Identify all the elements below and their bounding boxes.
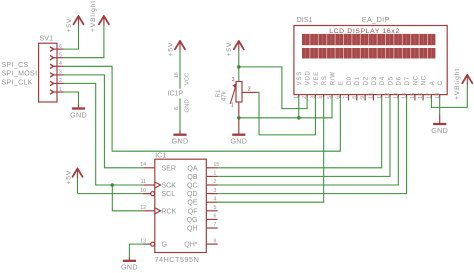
LCD pins 1-18 with names <box>294 70 444 100</box>
svg-text:VSS: VSS <box>297 71 303 85</box>
svg-text:R/W: R/W <box>330 71 336 85</box>
svg-text:1: 1 <box>59 87 62 93</box>
svg-text:QC: QC <box>187 183 198 190</box>
svg-text:6: 6 <box>59 44 62 50</box>
svg-text:3: 3 <box>311 96 317 99</box>
wire QB to LCD D5 <box>218 97 390 176</box>
ground (SV1) <box>70 105 87 120</box>
junction R1 bottom / GND rail <box>237 116 241 120</box>
svg-text:LCD DISPLAY 16x2: LCD DISPLAY 16x2 <box>329 28 400 35</box>
svg-text:D1: D1 <box>355 76 361 85</box>
wire QD to LCD D7 <box>218 97 407 193</box>
svg-text:SER: SER <box>162 165 176 172</box>
svg-text:8: 8 <box>352 96 358 99</box>
svg-text:SCK: SCK <box>162 183 177 190</box>
svg-text:+5V: +5V <box>168 42 175 57</box>
svg-text:GND: GND <box>121 263 138 272</box>
svg-text:6: 6 <box>335 96 341 99</box>
wire QE to LCD RS <box>218 97 324 202</box>
wire SPI_CS net to LCD E <box>64 66 341 151</box>
wire SV1 pin1 to ground <box>64 92 79 105</box>
wire G to ground <box>129 244 148 258</box>
svg-text:QD: QD <box>187 191 198 198</box>
svg-text:2: 2 <box>302 96 308 99</box>
wire SV1 pin6 to +5V <box>64 38 79 50</box>
svg-text:9: 9 <box>360 96 366 99</box>
svg-text:3: 3 <box>232 77 235 83</box>
svg-text:+5V: +5V <box>66 18 73 33</box>
svg-text:15: 15 <box>214 162 220 168</box>
svg-text:7: 7 <box>214 222 217 228</box>
power symbol IC1P <box>168 72 191 113</box>
supply +VBlight (backlight) <box>454 68 473 100</box>
supply +5V (R1) <box>226 41 244 67</box>
ground (R1) <box>230 118 247 146</box>
ground (IC1P) <box>172 130 189 146</box>
svg-text:16: 16 <box>418 92 424 98</box>
svg-text:13: 13 <box>140 238 146 244</box>
svg-text:2: 2 <box>214 179 217 185</box>
svg-text:QE: QE <box>187 200 197 207</box>
wire branch to RCK <box>112 185 143 211</box>
svg-text:74HCT595N: 74HCT595N <box>155 255 200 264</box>
svg-text:SPI_MOSI: SPI_MOSI <box>2 71 38 78</box>
svg-text:+5V: +5V <box>66 170 73 185</box>
svg-text:2: 2 <box>248 87 251 93</box>
supply +VBlight (SV1) <box>90 0 109 38</box>
supply +5V (IC1P VCC) <box>168 41 186 74</box>
net label SPI_CLK <box>2 79 33 86</box>
junction VSS / GND rail <box>297 116 301 120</box>
wire ground rail to LCD R/W <box>239 97 332 117</box>
svg-text:D0: D0 <box>347 76 353 85</box>
junction SCK/RCK <box>111 183 115 187</box>
svg-text:D3: D3 <box>372 76 378 85</box>
wire R1 top <box>238 67 240 82</box>
svg-text:G: G <box>162 242 167 249</box>
svg-text:VEE: VEE <box>314 71 320 85</box>
svg-text:5: 5 <box>214 205 217 211</box>
wire SPI_MOSI net to SER <box>64 75 144 168</box>
svg-text:VCC: VCC <box>185 72 191 85</box>
svg-text:RS: RS <box>322 75 328 85</box>
svg-text:GND: GND <box>230 137 247 146</box>
wire SPI_CLK net to SCK <box>64 83 144 185</box>
wire +5V to LCD VDD <box>239 67 307 109</box>
wire QA to LCD D4 <box>218 97 382 167</box>
svg-text:16: 16 <box>174 72 180 78</box>
svg-text:1: 1 <box>231 102 234 108</box>
svg-text:5: 5 <box>59 53 62 59</box>
svg-text:DIS1: DIS1 <box>297 15 313 24</box>
svg-text:5: 5 <box>327 96 333 99</box>
svg-text:IC1P: IC1P <box>168 90 184 97</box>
svg-text:A: A <box>430 81 436 86</box>
svg-text:QG: QG <box>187 217 198 224</box>
LCD module DIS1 EA_DIP <box>294 15 447 95</box>
svg-text:EA_DIP: EA_DIP <box>362 15 390 24</box>
svg-text:VDD: VDD <box>306 70 312 85</box>
svg-text:7: 7 <box>344 96 350 99</box>
wire LCD C down <box>439 97 441 115</box>
junction R1 top / VDD branch <box>237 65 241 69</box>
ground (LCD C) <box>431 115 448 135</box>
svg-text:14: 14 <box>140 162 146 168</box>
svg-text:3: 3 <box>214 188 217 194</box>
connector SV1 <box>39 33 64 102</box>
svg-text:IC1: IC1 <box>155 152 166 159</box>
svg-text:QH: QH <box>187 226 198 233</box>
svg-text:15: 15 <box>410 92 416 98</box>
svg-text:QF: QF <box>188 208 198 215</box>
ground (IC1 G) <box>121 258 138 272</box>
svg-text:4: 4 <box>59 61 62 67</box>
svg-text:10: 10 <box>140 188 146 194</box>
svg-text:RCK: RCK <box>162 208 177 215</box>
svg-text:QA: QA <box>187 165 197 172</box>
wire LCD A to +VBlight <box>431 85 467 107</box>
svg-text:8: 8 <box>174 107 180 110</box>
svg-text:SPI_CS: SPI_CS <box>2 62 29 69</box>
svg-text:E: E <box>339 81 345 86</box>
svg-text:GND: GND <box>70 110 87 119</box>
supply +5V (SCL) <box>66 169 83 194</box>
svg-text:6: 6 <box>214 214 217 220</box>
svg-text:12: 12 <box>140 205 146 211</box>
LCD character cells row 2 <box>302 48 435 59</box>
svg-text:C: C <box>438 80 444 85</box>
svg-text:D4: D4 <box>380 76 386 85</box>
svg-text:QB: QB <box>187 174 197 181</box>
svg-text:SV1: SV1 <box>40 33 54 42</box>
svg-text:9: 9 <box>214 238 217 244</box>
svg-text:D2: D2 <box>364 76 370 85</box>
net label SPI_CS <box>2 62 29 69</box>
wire +5V to SCL <box>78 193 151 195</box>
svg-text:QH*: QH* <box>184 242 198 249</box>
LCD character cells row 1 <box>302 34 435 45</box>
svg-text:D5: D5 <box>388 76 394 85</box>
supply +5V (SV1) <box>66 16 84 38</box>
svg-text:GND: GND <box>172 137 189 146</box>
wire QC to LCD D6 <box>218 97 399 185</box>
wire LCD VSS down <box>298 97 300 117</box>
svg-text:1: 1 <box>214 171 217 177</box>
svg-text:+VBlight: +VBlight <box>90 0 97 32</box>
svg-text:D6: D6 <box>397 76 403 85</box>
svg-text:10: 10 <box>369 92 375 98</box>
svg-text:47k: 47k <box>222 90 228 101</box>
svg-text:2: 2 <box>59 78 62 84</box>
svg-text:GND: GND <box>431 126 448 135</box>
wire SV1 pin5 to +VBlight <box>64 38 104 58</box>
wire R1 wiper to LCD VEE <box>256 92 315 134</box>
wire IC1P GND pin <box>179 112 181 131</box>
svg-text:4: 4 <box>214 196 217 202</box>
net label SPI_MOSI <box>2 71 38 78</box>
svg-text:1: 1 <box>294 96 300 99</box>
svg-text:+VBlight: +VBlight <box>454 68 461 100</box>
svg-text:NC: NC <box>422 75 428 85</box>
svg-text:SCL: SCL <box>162 191 176 198</box>
svg-text:11: 11 <box>141 179 146 185</box>
svg-text:GND: GND <box>185 99 191 112</box>
svg-text:NC: NC <box>413 75 419 85</box>
svg-text:3: 3 <box>59 70 62 76</box>
svg-text:D7: D7 <box>405 76 411 85</box>
trimmer resistor R1 47k <box>216 77 258 118</box>
svg-text:SPI_CLK: SPI_CLK <box>2 79 33 86</box>
IC U1 74HCT595N shift register <box>140 152 219 263</box>
svg-text:+5V: +5V <box>226 42 233 57</box>
